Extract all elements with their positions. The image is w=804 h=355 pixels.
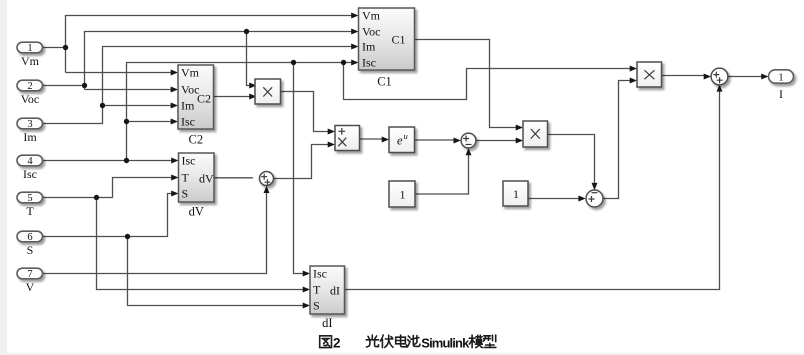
svg-text:V: V [26, 280, 35, 294]
svg-text:Im: Im [181, 99, 195, 113]
svg-text:dV: dV [199, 172, 214, 186]
svg-text:Isc: Isc [23, 167, 37, 181]
svg-text:1: 1 [778, 72, 783, 83]
svg-text:Simulink: Simulink [421, 335, 470, 350]
svg-text:6: 6 [27, 232, 32, 243]
svg-text:dV: dV [189, 204, 204, 218]
svg-text:1: 1 [400, 187, 406, 201]
svg-text:5: 5 [27, 193, 32, 204]
svg-text:Im: Im [362, 40, 376, 54]
svg-text:Vm: Vm [21, 54, 40, 68]
svg-text:S: S [313, 299, 320, 313]
svg-text:dI: dI [322, 316, 332, 330]
svg-text:C2: C2 [197, 92, 211, 106]
svg-text:e: e [397, 133, 403, 147]
svg-text:7: 7 [27, 269, 32, 280]
svg-text:3: 3 [27, 119, 32, 130]
svg-text:4: 4 [27, 156, 33, 167]
svg-text:Isc: Isc [181, 115, 195, 129]
svg-text:2: 2 [333, 335, 341, 350]
svg-text:u: u [404, 131, 408, 141]
svg-text:Vm: Vm [181, 66, 200, 80]
svg-text:dI: dI [330, 284, 340, 298]
svg-text:T: T [182, 171, 190, 185]
svg-text:1: 1 [513, 187, 519, 201]
svg-text:1: 1 [27, 43, 32, 54]
svg-text:Im: Im [23, 130, 37, 144]
svg-text:Vm: Vm [362, 9, 381, 23]
svg-text:Isc: Isc [362, 56, 376, 70]
svg-text:Voc: Voc [362, 25, 380, 39]
svg-text:S: S [182, 187, 189, 201]
svg-text:C1: C1 [392, 33, 406, 47]
svg-text:T: T [313, 283, 321, 297]
svg-text:C2: C2 [189, 133, 204, 147]
svg-text:Isc: Isc [182, 154, 196, 168]
svg-text:I: I [779, 87, 783, 101]
svg-text:C1: C1 [377, 74, 392, 88]
svg-text:2: 2 [27, 81, 32, 92]
svg-text:Isc: Isc [313, 267, 327, 281]
svg-text:T: T [26, 204, 34, 218]
svg-text:S: S [27, 243, 34, 257]
svg-text:Voc: Voc [21, 92, 39, 106]
